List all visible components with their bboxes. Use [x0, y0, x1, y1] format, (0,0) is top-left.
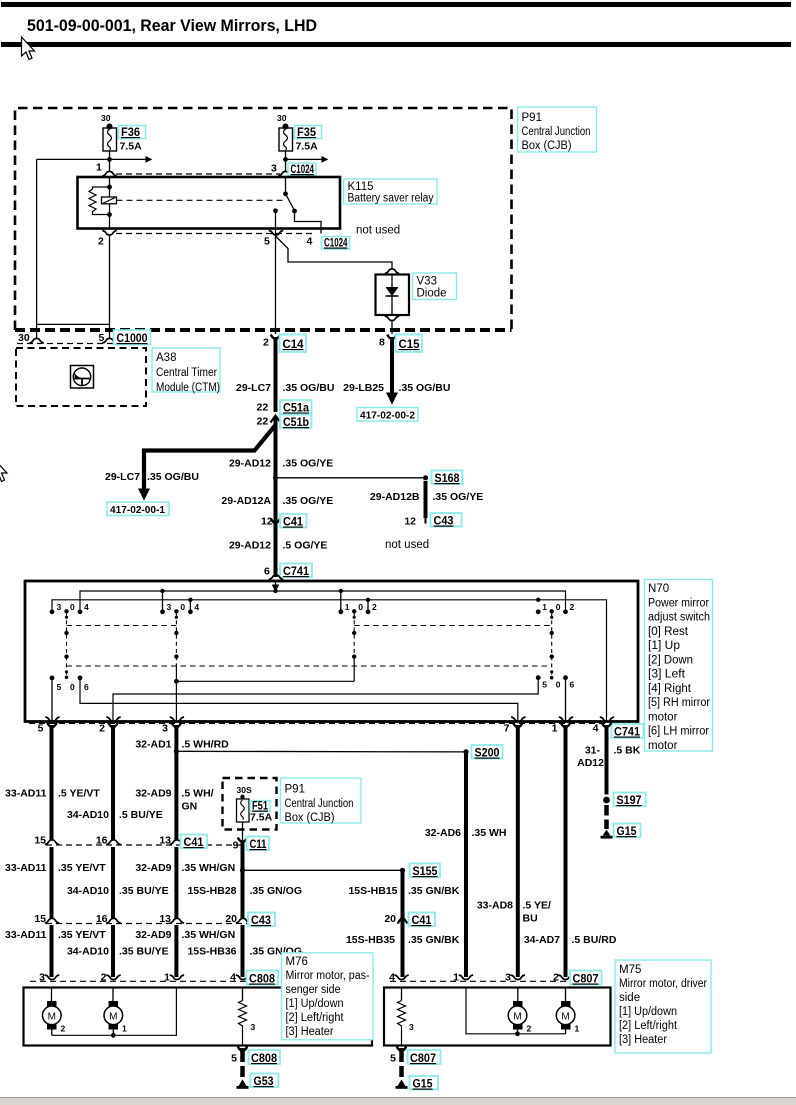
M76 pin 3: [39, 972, 59, 984]
wire C14 to C51a: [274, 337, 278, 412]
svg-text:C14: C14: [283, 337, 304, 351]
footer bar: [0, 1098, 796, 1105]
fuse F36: [101, 113, 146, 153]
svg-text:.5 BU/YE: .5 BU/YE: [119, 809, 163, 821]
group4 contacts 1 0 2: [536, 602, 575, 619]
svg-text:1: 1: [542, 602, 547, 612]
node col3 to S200: [174, 749, 179, 754]
svg-text:1: 1: [453, 972, 459, 984]
svg-text:M76: M76: [286, 956, 308, 968]
wire pin5 jog to diode: [276, 236, 393, 268]
pin 5: [264, 231, 283, 248]
svg-text:C1024: C1024: [291, 162, 315, 176]
group2 wiper dashed: [174, 613, 179, 722]
M76 motor 2 left/right: [104, 988, 127, 1036]
pin 16 hook: [106, 918, 120, 923]
wire col1 upper: [47, 723, 56, 728]
detent dashed rail lower: [67, 665, 552, 667]
svg-text:1: 1: [345, 602, 350, 612]
wire label 33-AD8 .5 YE/BU: [477, 900, 551, 925]
svg-text:5: 5: [57, 682, 62, 692]
svg-text:C41: C41: [283, 515, 303, 529]
footer divider: [0, 1097, 796, 1099]
wire col4 lower: [241, 925, 245, 977]
M75 motor 2 left/right: [508, 988, 531, 1034]
wire label 15S-HB35 .35 GN/BK: [346, 934, 460, 946]
node junction under F35: [283, 157, 288, 162]
svg-text:4: 4: [389, 972, 395, 984]
wire label 32-AD6 .35 WH: [425, 827, 507, 839]
svg-text:0: 0: [358, 602, 363, 612]
node on lower bus: [366, 598, 370, 602]
svg-text:Box (CJB): Box (CJB): [285, 812, 335, 824]
wire col3 upper: [172, 723, 181, 728]
svg-text:[1] Up/down: [1] Up/down: [619, 1006, 677, 1018]
svg-text:[3] Left: [3] Left: [648, 669, 686, 681]
svg-text:3: 3: [505, 972, 511, 984]
wire label 15S-HB36 .35 GN/OG: [187, 946, 302, 958]
group3 contacts 1 0 2: [338, 602, 377, 619]
node col4 to S155: [240, 868, 245, 873]
svg-text:Battery saver relay: Battery saver relay: [348, 193, 434, 205]
connector C741 into N70: [264, 564, 312, 580]
wire stub group2 pin3: [162, 591, 164, 610]
svg-text:0: 0: [556, 602, 561, 612]
pin 1: [96, 162, 117, 177]
svg-text:15: 15: [34, 913, 46, 925]
svg-text:.35 YE/VT: .35 YE/VT: [58, 862, 106, 874]
svg-text:C51a: C51a: [283, 401, 309, 415]
svg-text:32-AD9: 32-AD9: [135, 862, 171, 874]
svg-text:33-AD11: 33-AD11: [5, 862, 47, 874]
svg-text:33-AD11: 33-AD11: [5, 788, 47, 800]
svg-text:0: 0: [70, 602, 75, 612]
svg-text:3: 3: [271, 163, 277, 175]
svg-text:G53: G53: [254, 1074, 274, 1088]
svg-text:2: 2: [570, 602, 575, 612]
svg-text:0: 0: [556, 680, 561, 690]
connector C1024 bottom dashed line: [116, 233, 316, 235]
svg-text:9: 9: [233, 840, 239, 852]
wire col1 lower: [50, 925, 54, 977]
svg-text:417-02-00-1: 417-02-00-1: [110, 504, 165, 516]
svg-text:5: 5: [264, 236, 270, 248]
node pin5: [273, 208, 278, 213]
wire g4-5 to pin2: [113, 678, 538, 722]
detent dashed rail upper left: [67, 625, 177, 627]
svg-text:Module (CTM): Module (CTM): [156, 382, 220, 394]
P91 CJB label box lower: [281, 778, 362, 824]
svg-text:Box (CJB): Box (CJB): [522, 140, 572, 152]
fuse F35: [277, 113, 322, 153]
wire S200 down: [464, 752, 468, 977]
svg-text:.35 OG/YE: .35 OG/YE: [433, 491, 484, 503]
wire stub group2 pin4: [189, 600, 191, 610]
node on bus: [160, 589, 164, 593]
svg-text:F35: F35: [297, 125, 316, 139]
svg-text:1: 1: [96, 162, 102, 174]
connector C41 inline: [261, 514, 307, 529]
svg-text:5: 5: [542, 680, 547, 690]
svg-text:Central Junction: Central Junction: [285, 798, 354, 810]
connector C808 label: [247, 971, 279, 986]
svg-text:C741: C741: [614, 725, 640, 739]
wire switch to pin 4: [295, 211, 322, 234]
svg-text:1: 1: [122, 1024, 127, 1034]
svg-text:1: 1: [575, 1024, 580, 1034]
diode V33 box: [376, 275, 410, 316]
svg-text:2: 2: [263, 337, 269, 349]
connector C51a: [257, 400, 312, 415]
svg-text:.35 OG/BU: .35 OG/BU: [283, 382, 335, 394]
svg-text:[1] Up/down: [1] Up/down: [286, 998, 344, 1010]
M75 label box: [615, 960, 711, 1053]
svg-text:K115: K115: [348, 181, 374, 193]
connector C741 bottom dashed line: [29, 722, 609, 724]
M75 pin 4: [389, 972, 409, 984]
svg-text:3: 3: [167, 602, 172, 612]
svg-text:2: 2: [527, 1024, 532, 1034]
svg-text:S155: S155: [413, 864, 438, 878]
connector C1024 top label: [288, 162, 316, 176]
svg-text:5: 5: [390, 1053, 396, 1065]
svg-text:.5 BU/RD: .5 BU/RD: [572, 934, 617, 946]
wire bus lower: [52, 600, 607, 722]
svg-text:.5 YE/VT: .5 YE/VT: [58, 788, 100, 800]
svg-text:33-AD11: 33-AD11: [5, 929, 47, 941]
pin 5 of C1000: [99, 332, 117, 344]
pin 15 hook: [45, 918, 59, 923]
svg-text:.35 WH/GN: .35 WH/GN: [182, 862, 236, 874]
connector C41 row dashed: [46, 844, 247, 846]
M76 heater resistor: [239, 988, 256, 1046]
K115 label box: [344, 179, 438, 205]
svg-text:M: M: [48, 1012, 56, 1023]
wire branch to 417-02-00-1: [144, 425, 276, 490]
svg-text:M75: M75: [619, 964, 641, 976]
wire col2 lower: [111, 925, 115, 977]
connector C1024 top dashed line: [116, 173, 280, 175]
svg-text:3: 3: [162, 723, 168, 735]
svg-text:A38: A38: [156, 352, 176, 364]
N70 label box: [645, 580, 713, 752]
svg-text:[4] Right: [4] Right: [648, 683, 692, 695]
wire M76 common return: [52, 988, 177, 1036]
svg-text:1: 1: [164, 972, 170, 984]
svg-text:.5 YE/: .5 YE/: [523, 900, 551, 912]
node on lower bus: [188, 598, 192, 602]
svg-text:6: 6: [84, 682, 89, 692]
wire col1p down: [561, 723, 570, 728]
svg-text:M: M: [561, 1012, 569, 1023]
svg-text:C51b: C51b: [283, 415, 309, 429]
pin hook out of diode: [385, 316, 399, 321]
svg-text:4: 4: [194, 602, 199, 612]
wire relay pin2 down to C1000: [109, 236, 111, 339]
switch contact node: [292, 209, 297, 214]
relay K115 box: [78, 177, 341, 229]
node M76 common: [111, 1033, 116, 1038]
M75 pin 3: [505, 972, 525, 984]
P91 Central Junction Box dashed outline: [15, 108, 512, 330]
svg-text:15S-HB15: 15S-HB15: [348, 885, 397, 897]
wire relay pin5 down to C14: [275, 236, 277, 334]
svg-text:29-AD12: 29-AD12: [229, 458, 271, 470]
wire to S200: [176, 750, 466, 753]
svg-text:31-: 31-: [585, 745, 601, 757]
wire label 32-AD1 .5 WH/RD: [135, 739, 229, 751]
svg-text:30S: 30S: [237, 785, 252, 795]
svg-text:4: 4: [307, 236, 313, 248]
svg-text:C1024: C1024: [324, 236, 348, 250]
group3 wiper dashed: [352, 613, 356, 681]
svg-text:.35 GN/BK: .35 GN/BK: [408, 885, 460, 897]
svg-text:33-AD8: 33-AD8: [477, 900, 513, 912]
svg-text:F36: F36: [121, 125, 140, 139]
wire to S168: [276, 477, 426, 479]
svg-text:[2] Left/right: [2] Left/right: [286, 1012, 345, 1024]
wire label 29-LB25 .35 OG/BU: [343, 382, 450, 394]
wire F35 to relay pin 3: [285, 151, 287, 172]
svg-text:not used: not used: [356, 225, 400, 237]
M76 pin 1: [164, 972, 184, 984]
group2 contacts 3 0 4: [160, 602, 199, 619]
svg-text:BU: BU: [523, 913, 538, 925]
wire col2 mid: [111, 847, 115, 919]
svg-text:3: 3: [39, 972, 45, 984]
svg-text:29-LC7: 29-LC7: [236, 382, 271, 394]
wire label 29-AD12 .35 OG/YE: [229, 458, 333, 470]
ground G15 lower: [396, 1076, 439, 1091]
wire label 34-AD7 .5 BU/RD: [524, 934, 617, 946]
pin 3: [271, 163, 293, 177]
connector C15: [379, 335, 422, 353]
svg-text:.35 OG/BU: .35 OG/BU: [399, 382, 451, 394]
svg-text:12: 12: [404, 516, 416, 528]
splice S197: [603, 793, 645, 808]
svg-text:34-AD10: 34-AD10: [67, 885, 109, 897]
svg-text:3: 3: [57, 602, 62, 612]
diode symbol: [386, 275, 399, 316]
svg-text:.35 WH/GN: .35 WH/GN: [182, 929, 236, 941]
splice S168: [423, 471, 463, 486]
svg-text:S197: S197: [617, 793, 642, 807]
svg-text:C15: C15: [399, 337, 420, 351]
svg-text:[2] Left/right: [2] Left/right: [619, 1020, 678, 1032]
node C741 entry arrow: [272, 585, 279, 593]
wire label 33-AD11 .35 YE/VT: [5, 862, 106, 874]
svg-text:2: 2: [553, 972, 559, 984]
wire to S155: [243, 869, 403, 871]
pin 20 hook: [236, 918, 250, 923]
svg-text:5: 5: [231, 1053, 237, 1065]
wire label 29-AD12B .35 OG/YE: [370, 491, 483, 503]
wire col3 mid: [174, 847, 178, 919]
svg-text:2: 2: [372, 602, 377, 612]
M76 pin 4: [230, 972, 250, 984]
svg-text:.5 WH/: .5 WH/: [182, 788, 214, 800]
wire label 29-AD12 .5 OG/YE: [229, 540, 327, 552]
wire link above C1000: [37, 323, 110, 325]
pin 15 hook: [45, 840, 59, 845]
resistor in relay: [89, 187, 110, 215]
wire col7 down: [513, 723, 522, 728]
node on bus: [339, 589, 343, 593]
svg-text:16: 16: [96, 835, 108, 847]
svg-text:M: M: [513, 1012, 521, 1023]
svg-text:senger side: senger side: [286, 984, 341, 996]
svg-text:P91: P91: [522, 112, 542, 124]
svg-text:0: 0: [180, 602, 185, 612]
svg-text:32-AD6: 32-AD6: [425, 827, 461, 839]
wire label 15S-HB15 .35 GN/BK: [348, 885, 459, 897]
wire label 34-AD10 .35 BU/YE: [67, 885, 169, 897]
group1 bottom contacts 5 0 6: [50, 676, 89, 693]
wire label 33-AD11 .5 YE/VT: [5, 788, 100, 800]
svg-text:30: 30: [277, 113, 287, 123]
connector C14: [263, 335, 306, 353]
svg-text:N70: N70: [648, 583, 669, 595]
wire diode to C15: [391, 321, 393, 334]
wire C741 entry: [275, 581, 277, 591]
svg-text:417-02-00-2: 417-02-00-2: [360, 410, 415, 422]
svg-text:.5 BK: .5 BK: [614, 745, 641, 757]
svg-text:.35 WH: .35 WH: [472, 827, 507, 839]
wire F36 to relay pin 1: [109, 151, 111, 172]
arrow to 417-02-00-2: [386, 393, 398, 405]
svg-text:32-AD1: 32-AD1: [135, 739, 171, 751]
svg-text:[5] RH mirror: [5] RH mirror: [648, 697, 710, 709]
A38 label box: [152, 348, 220, 394]
svg-text:3: 3: [409, 1022, 414, 1032]
arrow to 417-02-00-1: [138, 489, 150, 501]
svg-text:C41: C41: [184, 835, 204, 849]
wire F51 to C11: [242, 822, 244, 843]
wire left branch down to C1000: [36, 159, 38, 338]
connector C41 label: [181, 835, 208, 850]
svg-text:not used: not used: [385, 539, 429, 551]
svg-text:29-LC7: 29-LC7: [105, 471, 140, 483]
svg-text:Mirror motor, driver: Mirror motor, driver: [619, 978, 707, 990]
svg-text:adjust switch: adjust switch: [648, 612, 710, 624]
wire g1-6 to pin7: [80, 678, 518, 722]
connector C1000 dashed line: [17, 343, 113, 345]
svg-text:15: 15: [34, 835, 46, 847]
svg-text:7.5A: 7.5A: [296, 141, 319, 153]
svg-text:G15: G15: [413, 1077, 433, 1091]
svg-text:GN: GN: [182, 801, 198, 813]
svg-text:.35 OG/YE: .35 OG/YE: [283, 458, 334, 470]
svg-text:7: 7: [504, 723, 510, 735]
M76 mirror motor box: [24, 988, 373, 1046]
wire wiper link: [176, 680, 354, 682]
svg-text:C807: C807: [573, 972, 599, 986]
pin 30: [18, 332, 44, 344]
svg-text:P91: P91: [285, 784, 305, 796]
svg-text:.5 OG/YE: .5 OG/YE: [283, 540, 328, 552]
svg-text:F51: F51: [252, 799, 268, 813]
connector C1024 bottom label: [322, 236, 350, 250]
svg-text:side: side: [619, 992, 640, 1004]
svg-text:16: 16: [96, 913, 108, 925]
wire col4 mid: [241, 840, 245, 919]
group4 bottom contacts 5 0 6: [536, 675, 575, 689]
svg-text:S200: S200: [475, 746, 500, 760]
wire col3 lower: [174, 925, 178, 977]
switch blade: [286, 194, 295, 211]
wire stub group3 pin2: [367, 600, 369, 610]
svg-text:Mirror motor, pas-: Mirror motor, pas-: [286, 970, 370, 982]
svg-text:[0] Rest: [0] Rest: [648, 626, 689, 638]
wire S168 down to C43: [424, 481, 428, 518]
group4 wiper dashed: [550, 613, 554, 680]
svg-text:29-LB25: 29-LB25: [343, 382, 384, 394]
svg-text:.35 YE/VT: .35 YE/VT: [58, 929, 106, 941]
A38 Central Timer Module dashed box: [16, 348, 146, 406]
svg-text:6: 6: [264, 566, 270, 578]
ground G53: [237, 1074, 279, 1089]
wire dashed to G15: [604, 805, 609, 816]
N70 power mirror adjust switch box: [25, 581, 638, 722]
svg-text:.35 OG/BU: .35 OG/BU: [147, 471, 199, 483]
svg-text:C43: C43: [434, 514, 454, 528]
svg-text:C1000: C1000: [117, 331, 148, 345]
wire arrow right from F36 node: [37, 156, 153, 163]
wire coil branch: [109, 177, 111, 229]
wire label 31-AD12 .5 BK: [577, 745, 641, 770]
svg-text:1: 1: [552, 723, 558, 735]
connector C807 label: [570, 971, 602, 986]
V33 label box: [413, 273, 457, 300]
pin hook into diode: [385, 269, 399, 274]
wire C15 down: [390, 337, 394, 393]
title bar top rule: [1, 2, 791, 7]
svg-text:C11: C11: [250, 837, 267, 851]
wire bus upper: [80, 591, 566, 612]
svg-text:C43: C43: [251, 913, 271, 927]
svg-text:7.5A: 7.5A: [120, 141, 143, 153]
svg-text:12: 12: [261, 516, 273, 528]
pin 20 C41 on S155 wire: [384, 913, 435, 928]
pin 13 hook: [170, 840, 184, 845]
detent dashed rail upper right: [354, 625, 552, 627]
svg-text:Central Timer: Central Timer: [156, 367, 217, 379]
svg-text:[2] Down: [2] Down: [648, 654, 693, 666]
pin 16 hook: [106, 840, 120, 845]
svg-text:C741: C741: [283, 564, 309, 578]
svg-text:22: 22: [257, 416, 269, 428]
M75 pin 5 C807 out: [390, 1047, 440, 1066]
connector C51b: [257, 415, 312, 430]
splice S200: [463, 745, 502, 760]
M76 pin 5 C808 out: [231, 1047, 280, 1066]
svg-text:0: 0: [70, 682, 75, 692]
svg-text:22: 22: [257, 402, 269, 414]
M76 motor 1 up/down: [43, 988, 66, 1036]
svg-text:34-AD10: 34-AD10: [67, 809, 109, 821]
connector C741 label bottom: [612, 724, 644, 739]
wire pin5 down: [275, 211, 277, 236]
svg-text:8: 8: [379, 337, 385, 349]
node junction to S168: [273, 475, 278, 480]
svg-text:G15: G15: [617, 824, 637, 838]
svg-text:2: 2: [99, 723, 105, 735]
svg-text:20: 20: [384, 913, 396, 925]
svg-text:motor: motor: [648, 711, 678, 723]
M75 pin 2: [553, 972, 573, 984]
svg-text:15S-HB28: 15S-HB28: [187, 885, 236, 897]
svg-text:M: M: [109, 1012, 117, 1023]
